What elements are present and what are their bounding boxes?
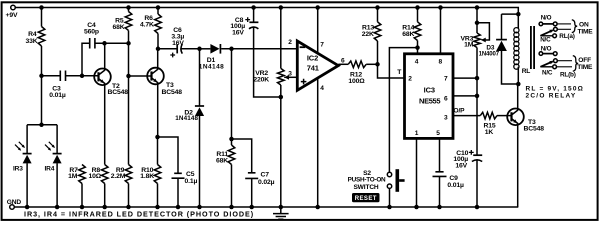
wire T3 base lead	[129, 75, 152, 77]
wire C6 to D2 node	[182, 48, 200, 50]
svg-text:RESET: RESET	[355, 196, 377, 202]
capacitor C3	[60, 71, 65, 82]
node ground/IC2 pin4	[315, 205, 320, 210]
node D1/R11 junction	[229, 47, 234, 52]
node C4/T2 collector junction	[102, 41, 107, 46]
wire coil bottom lead	[517, 67, 519, 84]
resistor R10	[154, 165, 161, 184]
wire IC3 pin7	[453, 77, 477, 79]
svg-text:IC2: IC2	[307, 53, 318, 62]
node ground/R11	[229, 205, 234, 210]
svg-text:PUSH-TO-ON: PUSH-TO-ON	[348, 176, 386, 183]
wire T2 base node to C4	[82, 43, 90, 76]
wire R4 top lead	[41, 8, 43, 27]
svg-text:D3: D3	[486, 44, 494, 51]
wire T2 collector	[104, 43, 106, 68]
svg-text:RL = 9V, 150Ω: RL = 9V, 150Ω	[526, 85, 585, 92]
contact N/C (b)	[540, 66, 552, 68]
wire R4 to C3	[42, 75, 61, 77]
wire emitter node to R10	[157, 137, 159, 165]
wire R10 to ground	[157, 184, 159, 208]
wire R9 to ground	[128, 184, 130, 208]
svg-text:IR4: IR4	[45, 166, 55, 173]
wire C8 top lead	[253, 8, 255, 23]
node relay coil bottom junction	[516, 82, 521, 87]
capacitor C10 (electrolytic)	[473, 154, 482, 156]
wire trigger to IC3 pin2	[378, 64, 405, 78]
svg-text:16V: 16V	[232, 30, 244, 37]
wire R8 to ground	[104, 184, 106, 208]
node ground/R10	[155, 205, 160, 210]
wire ground rail	[14, 206, 518, 208]
preset VR3	[474, 33, 481, 48]
wire IR split horizontal	[27, 124, 57, 126]
wire IR4 to ground	[56, 163, 58, 207]
wire IC2 output	[338, 63, 348, 65]
wire IR3 to ground	[26, 163, 28, 207]
transistor T3 (relay driver)	[507, 109, 544, 133]
svg-text:1M: 1M	[68, 173, 78, 180]
wire IR4 anode drop	[56, 125, 58, 153]
VR2 wiper arrow	[284, 75, 289, 80]
svg-text:2: 2	[288, 39, 292, 46]
svg-text:TIME: TIME	[578, 28, 594, 35]
node pin6/VR3 junction	[475, 94, 480, 99]
svg-text:10Ω: 10Ω	[88, 173, 101, 180]
node ground/C7	[249, 205, 254, 210]
svg-text:O/P: O/P	[454, 107, 466, 114]
node rail/R13	[375, 5, 380, 10]
diode D2	[195, 105, 204, 107]
svg-text:0.02µ: 0.02µ	[258, 179, 275, 186]
wire +9V rail	[15, 8, 518, 29]
node ground/R9	[126, 205, 131, 210]
contact N/C (a)	[540, 35, 552, 37]
wire C10 to ground	[476, 160, 478, 207]
svg-text:N/C: N/C	[542, 70, 553, 77]
svg-text:100Ω: 100Ω	[348, 78, 365, 85]
VR3 wiper arrow	[477, 23, 489, 40]
wire D3 top link	[502, 13, 519, 15]
capacitor C4	[90, 38, 95, 49]
node ground/R8	[102, 205, 107, 210]
resistor R11	[228, 145, 235, 165]
node rail/R14	[415, 5, 420, 10]
resistor R15	[480, 112, 497, 119]
wire R5 bottom lead	[128, 31, 130, 44]
wire R14 top lead	[417, 8, 419, 22]
node T3 emitter junction	[155, 135, 160, 140]
relay arm (b)	[540, 62, 552, 67]
node ground/IR4	[55, 205, 60, 210]
node rail/VR3	[475, 5, 480, 10]
svg-text:7: 7	[320, 41, 324, 48]
wire R11 to ground	[231, 165, 233, 208]
node D3/coil top junction	[516, 12, 521, 17]
resistor R12	[348, 61, 366, 68]
svg-text:0.01µ: 0.01µ	[49, 92, 66, 99]
switch S2 contacts	[387, 172, 391, 176]
svg-text:5: 5	[436, 130, 440, 137]
wire C4 to T2 collector node	[95, 42, 129, 44]
node VR2/C8/ground junction	[279, 95, 284, 100]
wire IC3 pin8 to rail	[440, 8, 442, 54]
svg-text:220K: 220K	[253, 76, 269, 83]
svg-text:N/C: N/C	[540, 37, 551, 44]
switch S2 button	[396, 169, 400, 192]
wire D1 to IC2 pin2	[221, 48, 297, 50]
preset VR2	[278, 68, 285, 85]
svg-text:4: 4	[415, 58, 419, 65]
wire R15 to T3 base	[497, 115, 512, 117]
wire R4 bottom to IR split	[41, 46, 43, 125]
svg-text:SWITCH: SWITCH	[353, 184, 378, 191]
resistor R6	[155, 14, 162, 34]
svg-text:16V: 16V	[172, 40, 184, 47]
node pin7/VR3 junction	[475, 76, 480, 81]
contact N/O (a)	[539, 22, 543, 26]
svg-text:0.01µ: 0.01µ	[447, 182, 464, 189]
svg-text:3: 3	[288, 71, 292, 78]
node R5 bottom junction	[126, 41, 131, 46]
node rail/IC3 pin8	[438, 5, 443, 10]
wire R6 top lead	[157, 8, 159, 15]
svg-text:ON: ON	[579, 21, 589, 28]
wire R11 node to C7	[232, 139, 252, 173]
node T3 base junction	[126, 74, 131, 79]
wire R12 to R13 node	[366, 63, 377, 65]
relay RL coil	[514, 28, 519, 33]
wire VR3 bottom to C10	[476, 48, 478, 156]
wire R5 node to T3 base node	[128, 43, 130, 76]
diode D1	[210, 44, 219, 54]
node ground/C5	[176, 205, 181, 210]
+9V terminal	[11, 5, 16, 10]
contact N/O (b)	[539, 52, 543, 56]
svg-text:BC548: BC548	[108, 89, 129, 96]
photodiode IR4	[53, 153, 62, 155]
svg-text:1.8K: 1.8K	[140, 173, 154, 180]
earth ground symbol	[280, 207, 282, 214]
svg-text:2.2M: 2.2M	[111, 173, 126, 180]
svg-text:68K: 68K	[402, 31, 414, 38]
wire R6 bottom / T3 collector	[157, 34, 159, 68]
wire C3 to T2 base node	[66, 75, 83, 77]
wire R7 to ground	[81, 184, 83, 208]
node R12/R13 junction	[375, 62, 380, 67]
photodiode IR3	[23, 153, 32, 155]
IR3 light arrows	[15, 145, 20, 150]
svg-text:3: 3	[444, 115, 448, 122]
wire VR2 bottom lead	[280, 85, 282, 207]
wire driver emitter to ground	[517, 125, 519, 207]
wire T2 base lead	[82, 75, 99, 77]
node R4/C3 junction	[39, 74, 44, 79]
node rail/R6	[156, 5, 161, 10]
relay core bars	[531, 26, 534, 69]
wire T3 collector to C6	[158, 48, 177, 50]
wire IC3 pin6	[453, 95, 477, 97]
svg-text:68K: 68K	[112, 24, 124, 31]
node VR3 wiper tie junction	[475, 21, 480, 26]
svg-text:IC3: IC3	[424, 85, 435, 94]
wire D3 bottom link	[502, 50, 519, 85]
brace OFF TIME	[573, 56, 578, 72]
svg-text:NE555: NE555	[419, 96, 440, 105]
svg-text:1M: 1M	[464, 42, 474, 49]
wire IR3 anode drop	[26, 125, 28, 153]
svg-text:6: 6	[341, 57, 345, 64]
capacitor C8 (electrolytic)	[249, 21, 258, 23]
svg-text:IR3: IR3	[13, 166, 23, 173]
node R11/C7 junction	[229, 137, 234, 142]
node rail/IC2 pin7	[315, 5, 320, 10]
capacitor C7	[245, 173, 258, 179]
svg-text:1N4148: 1N4148	[175, 115, 198, 122]
svg-text:22K: 22K	[362, 31, 374, 38]
svg-text:RL(a): RL(a)	[559, 33, 574, 40]
node ground/S2	[387, 205, 392, 210]
svg-text:2C/O RELAY: 2C/O RELAY	[526, 93, 577, 100]
node R14/pin4/S2 junction	[415, 45, 420, 50]
svg-text:+9V: +9V	[6, 12, 18, 19]
wire IC2 pin4 to ground	[317, 78, 319, 207]
svg-text:33K: 33K	[25, 38, 37, 45]
wire IC3 pin3 output	[453, 115, 480, 117]
wire T3 emitter	[157, 84, 159, 137]
node IR split junction	[39, 123, 44, 128]
svg-text:16V: 16V	[455, 162, 467, 169]
IR4 light arrows	[45, 145, 50, 150]
wire emitter node to C5	[158, 137, 179, 173]
svg-text:1N4148: 1N4148	[199, 64, 224, 71]
resistor R9	[125, 165, 132, 184]
node ground/IC3 pin1	[414, 205, 419, 210]
op-amp IC2	[297, 41, 338, 90]
wire R13 top lead	[377, 8, 379, 22]
svg-text:IR3, IR4 = INFRARED LED DETECT: IR3, IR4 = INFRARED LED DETECTOR (PHOTO …	[24, 210, 254, 219]
wire VR2 top lead	[280, 8, 282, 69]
resistor R5	[125, 12, 132, 31]
wire T3 base node to R9	[128, 76, 130, 165]
wire IC3 pin5 to C9	[439, 138, 441, 171]
capacitor C6 (electrolytic)	[176, 44, 178, 53]
wire IC2 pin7 to rail	[317, 8, 319, 53]
svg-text:4: 4	[320, 85, 324, 92]
brace ON TIME	[572, 20, 577, 33]
svg-text:GND: GND	[7, 199, 22, 206]
capacitor C9	[433, 172, 447, 177]
svg-text:TIME: TIME	[577, 64, 593, 71]
svg-text:1N4007: 1N4007	[479, 51, 500, 57]
svg-text:BC548: BC548	[162, 89, 183, 96]
node ground/C9	[437, 205, 442, 210]
node ground/D2	[197, 205, 202, 210]
svg-text:2: 2	[408, 75, 412, 82]
node ground/C10	[475, 205, 480, 210]
wire node to D1	[200, 48, 211, 50]
wire C9 to ground	[439, 176, 441, 207]
node rail/R5	[126, 5, 131, 10]
node ground/IR3	[25, 205, 30, 210]
svg-text:4.7K: 4.7K	[140, 21, 154, 28]
svg-text:560p: 560p	[84, 29, 99, 36]
wire C5 to ground	[177, 178, 179, 207]
capacitor C5	[172, 173, 185, 178]
svg-text:BC548: BC548	[524, 125, 545, 132]
wire D2 to ground	[199, 116, 201, 208]
node T2 base junction	[80, 74, 85, 79]
node ground/R7	[80, 205, 85, 210]
wire R13 bottom lead	[377, 41, 379, 64]
node rail/R4	[39, 5, 44, 10]
wire D2 drop	[199, 49, 201, 106]
resistor R13	[374, 22, 381, 41]
wire T2 emitter to R8	[104, 85, 106, 165]
svg-text:68K: 68K	[216, 157, 228, 164]
GND terminal	[10, 205, 15, 210]
svg-text:8: 8	[439, 58, 443, 65]
svg-text:0.1µ: 0.1µ	[185, 178, 198, 185]
wire R14 bottom lead	[417, 41, 419, 54]
wire R5 top lead	[128, 8, 130, 12]
svg-text:741: 741	[307, 63, 319, 72]
wire D3 branch	[501, 14, 503, 39]
wire IC3 pin1 to ground	[416, 138, 418, 207]
wire driver collector	[517, 84, 519, 109]
node rail/VR2	[279, 5, 284, 10]
svg-text:7: 7	[444, 75, 448, 82]
relay arm (a)	[540, 30, 552, 36]
resistor R4	[38, 27, 45, 47]
svg-text:N/O: N/O	[541, 15, 552, 22]
resistor R8	[101, 165, 108, 184]
svg-text:6: 6	[444, 96, 448, 103]
wire C8 to VR2 bottom	[254, 27, 281, 97]
node C6/D1/D2 junction	[197, 47, 202, 52]
diode D3	[496, 39, 507, 41]
svg-text:1: 1	[415, 130, 419, 137]
svg-text:C9: C9	[449, 175, 458, 182]
resistor R14	[414, 22, 421, 41]
wire R11 top lead	[231, 49, 233, 145]
wire VR3 top lead	[476, 8, 478, 34]
wire reset line to S2	[389, 48, 417, 173]
transistor T3	[147, 68, 182, 96]
wire S2 to ground	[389, 188, 391, 207]
wire C7 to ground	[251, 178, 253, 207]
svg-text:C7: C7	[261, 171, 270, 178]
node rail/C8	[251, 5, 256, 10]
transistor T2	[94, 69, 128, 97]
RESET label box	[352, 193, 380, 202]
node T3 collector/C6 junction	[156, 47, 161, 52]
resistor R7	[79, 165, 86, 184]
node ground/VR2 return	[279, 205, 284, 210]
svg-text:RL: RL	[522, 68, 531, 75]
svg-text:1K: 1K	[485, 129, 494, 136]
svg-text:RL(b): RL(b)	[560, 71, 576, 78]
timer IC3	[405, 54, 454, 139]
